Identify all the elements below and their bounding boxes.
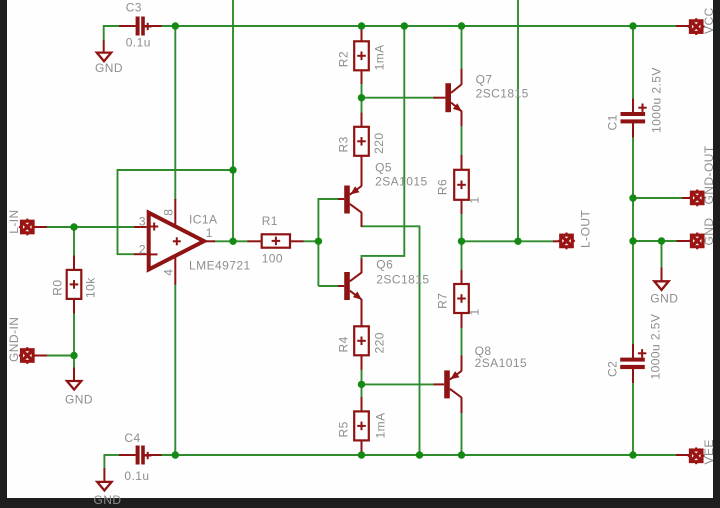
resistor R4 bbox=[336, 326, 386, 370]
wire Q6 collector to VCC rail bbox=[362, 26, 405, 259]
junction R2/VCC rail bbox=[358, 22, 365, 29]
svg-text:3: 3 bbox=[139, 214, 146, 228]
svg-text:C2: C2 bbox=[605, 361, 619, 377]
wire C2 to VEE rail bbox=[632, 382, 634, 455]
wire output node to L-OUT bbox=[462, 240, 554, 242]
svg-text:0.1u: 0.1u bbox=[126, 36, 151, 50]
connector VEE bbox=[676, 439, 716, 464]
capacitor C1 bbox=[606, 67, 664, 137]
svg-text:2SA1015: 2SA1015 bbox=[375, 174, 428, 188]
wire C1 to GND-OUT node bbox=[632, 137, 634, 242]
wire L-IN node to R0 bbox=[73, 227, 75, 257]
connector VCC bbox=[676, 7, 716, 35]
transistor Q6 bbox=[338, 258, 430, 328]
svg-text:GND-OUT: GND-OUT bbox=[702, 145, 716, 204]
svg-text:GND: GND bbox=[650, 292, 678, 306]
svg-text:10k: 10k bbox=[84, 277, 98, 298]
svg-text:LME49721: LME49721 bbox=[189, 259, 251, 273]
wire R1 to driver node bbox=[303, 240, 319, 242]
svg-text:220: 220 bbox=[372, 133, 386, 154]
wire C4 left lead segment bbox=[104, 454, 119, 456]
svg-text:GND-IN: GND-IN bbox=[7, 317, 21, 362]
resistor R5 bbox=[336, 397, 387, 455]
svg-text:2SC1815: 2SC1815 bbox=[376, 273, 429, 287]
wire V- from pin 4 to bottom rail bbox=[174, 284, 176, 455]
wire R2 lower lead bbox=[361, 83, 363, 98]
svg-text:C3: C3 bbox=[126, 0, 142, 14]
ground (C4) bbox=[94, 468, 122, 507]
svg-text:Q6: Q6 bbox=[376, 258, 393, 272]
junction Q5 collector/VEE rail bbox=[416, 451, 423, 458]
connector GND right bbox=[677, 217, 717, 249]
resistor R3 bbox=[336, 113, 386, 171]
junction IC1A output bbox=[229, 238, 236, 245]
svg-text:R0: R0 bbox=[51, 279, 65, 295]
junction R1/driver bases bbox=[315, 238, 322, 245]
transistor Q8 bbox=[434, 344, 528, 413]
wire VCC top rail bbox=[161, 25, 676, 27]
junction L-IN/R0 bbox=[70, 223, 77, 230]
svg-text:1mA: 1mA bbox=[374, 412, 388, 438]
junction C2 top node bbox=[629, 237, 636, 244]
svg-text:R6: R6 bbox=[436, 179, 450, 195]
svg-text:GND: GND bbox=[702, 217, 716, 245]
ground (right) bbox=[650, 241, 678, 306]
wire L-IN to pin 3 bbox=[46, 226, 134, 228]
svg-text:Q5: Q5 bbox=[375, 161, 392, 175]
svg-text:2SC1815: 2SC1815 bbox=[476, 87, 529, 101]
wire R4 to R5 column bbox=[361, 354, 363, 412]
svg-text:GND: GND bbox=[94, 493, 122, 507]
svg-text:Q7: Q7 bbox=[476, 73, 493, 87]
svg-text:1000u 2.5V: 1000u 2.5V bbox=[650, 67, 664, 133]
svg-text:220: 220 bbox=[373, 332, 387, 353]
svg-text:1: 1 bbox=[468, 196, 482, 203]
wire VCC rail to Q7 collector bbox=[461, 26, 463, 70]
svg-text:GND: GND bbox=[65, 392, 93, 406]
wire C3 to GND corner bbox=[103, 25, 105, 41]
resistor R0 bbox=[51, 256, 98, 314]
border frame bbox=[0, 0, 7, 508]
junction R5/VEE rail bbox=[358, 451, 365, 458]
svg-text:VCC: VCC bbox=[702, 7, 716, 34]
wire R2R3 node to Q7 base bbox=[362, 97, 435, 99]
wire R0 to GND-IN node bbox=[73, 298, 75, 355]
wire Q8 collector to VEE rail bbox=[461, 412, 463, 455]
capacitor C4 bbox=[119, 431, 162, 483]
resistor R6 bbox=[436, 155, 482, 214]
junction Q8 collector/VEE rail bbox=[458, 451, 465, 458]
ground (GND-IN) bbox=[65, 355, 93, 406]
junction GND-IN/R0 bbox=[70, 352, 77, 359]
svg-text:L-OUT: L-OUT bbox=[579, 210, 593, 248]
wire GND-OUT branch bbox=[633, 197, 683, 199]
junction feedback node bbox=[229, 166, 236, 173]
wire VEE bottom rail bbox=[161, 454, 676, 456]
svg-text:VEE: VEE bbox=[702, 439, 716, 464]
svg-text:1: 1 bbox=[468, 308, 482, 315]
resistor R2 bbox=[336, 26, 386, 84]
capacitor C3 bbox=[119, 0, 162, 49]
junction Q6 collector/VCC rail bbox=[401, 22, 408, 29]
wire C3 left lead segment bbox=[104, 25, 120, 27]
svg-text:R4: R4 bbox=[336, 336, 350, 352]
svg-text:4: 4 bbox=[161, 269, 175, 276]
transistor Q5 bbox=[338, 161, 428, 228]
wire C2 upper lead bbox=[632, 241, 634, 345]
wire feedback loop to pin 2 bbox=[118, 170, 234, 254]
svg-text:1mA: 1mA bbox=[373, 44, 387, 70]
wire R7 to Q8 emitter bbox=[461, 327, 463, 357]
svg-text:2SA1015: 2SA1015 bbox=[475, 356, 528, 370]
svg-text:2: 2 bbox=[139, 242, 146, 256]
svg-text:R3: R3 bbox=[336, 136, 350, 152]
junction L-OUT node bbox=[514, 238, 521, 245]
svg-text:1: 1 bbox=[206, 226, 213, 240]
resistor R7 bbox=[436, 270, 482, 328]
wire driver node to Q5 base bbox=[318, 199, 338, 286]
svg-text:C4: C4 bbox=[124, 431, 140, 445]
svg-text:R2: R2 bbox=[336, 51, 350, 67]
ground (C3) bbox=[95, 40, 123, 74]
junction C1/C2 GND-OUT node bbox=[629, 194, 636, 201]
wire IC1A output to R1 bbox=[214, 240, 249, 242]
wire R6 to output node bbox=[461, 213, 463, 241]
svg-text:0.1u: 0.1u bbox=[124, 469, 149, 483]
resistor R1 bbox=[248, 214, 304, 266]
junction Q7 collector/VCC rail bbox=[458, 22, 465, 29]
wire Q7 emitter to R6 bbox=[461, 125, 463, 156]
wire GND-IN lead bbox=[46, 355, 74, 357]
svg-text:L-IN: L-IN bbox=[7, 209, 21, 233]
wire R3 upper lead bbox=[361, 98, 363, 114]
junction GND branch node bbox=[658, 237, 665, 244]
svg-text:GND: GND bbox=[95, 61, 123, 75]
svg-text:8: 8 bbox=[161, 209, 175, 216]
svg-text:C1: C1 bbox=[606, 114, 620, 130]
op-amp IC1A bbox=[134, 199, 251, 285]
junction C2/VEE rail bbox=[629, 451, 636, 458]
capacitor C2 bbox=[605, 314, 662, 383]
svg-text:100: 100 bbox=[262, 252, 283, 266]
svg-text:IC1A: IC1A bbox=[189, 212, 217, 226]
junction C4/VEE rail bbox=[172, 451, 179, 458]
junction R2/R3/Q7 base bbox=[358, 94, 365, 101]
wire output node to R7 bbox=[461, 241, 463, 270]
svg-text:R5: R5 bbox=[336, 421, 350, 437]
transistor Q7 bbox=[434, 69, 529, 126]
junction C1/VCC rail bbox=[629, 22, 636, 29]
junction C3/VCC rail bbox=[172, 22, 179, 29]
svg-text:R7: R7 bbox=[436, 293, 450, 309]
wire R4R5 node to Q8 base bbox=[362, 383, 435, 385]
svg-text:1000u 2.5V: 1000u 2.5V bbox=[648, 314, 662, 380]
wire Q5 collector to VEE rail bbox=[362, 226, 420, 455]
wire vertical cut at top (to L-OUT node) bbox=[517, 0, 519, 241]
connector GND-OUT bbox=[682, 145, 716, 206]
junction R4/R5/Q8 base bbox=[358, 381, 365, 388]
wire VCC right column to C1 bbox=[632, 26, 634, 100]
wire GND right branch bbox=[633, 240, 677, 242]
wire V+ supply to pin 8 bbox=[174, 26, 176, 200]
svg-text:R1: R1 bbox=[262, 214, 278, 228]
connector GND-IN bbox=[7, 317, 47, 364]
wire vertical cut at top (to IC1A feedback node) bbox=[232, 0, 234, 241]
wire driver node to Q6 base bbox=[318, 285, 338, 287]
junction R6/R7 output node bbox=[458, 238, 465, 245]
wire C4 to GND corner bbox=[103, 454, 105, 469]
connector L-IN bbox=[7, 209, 47, 235]
connector L-OUT bbox=[553, 210, 593, 250]
